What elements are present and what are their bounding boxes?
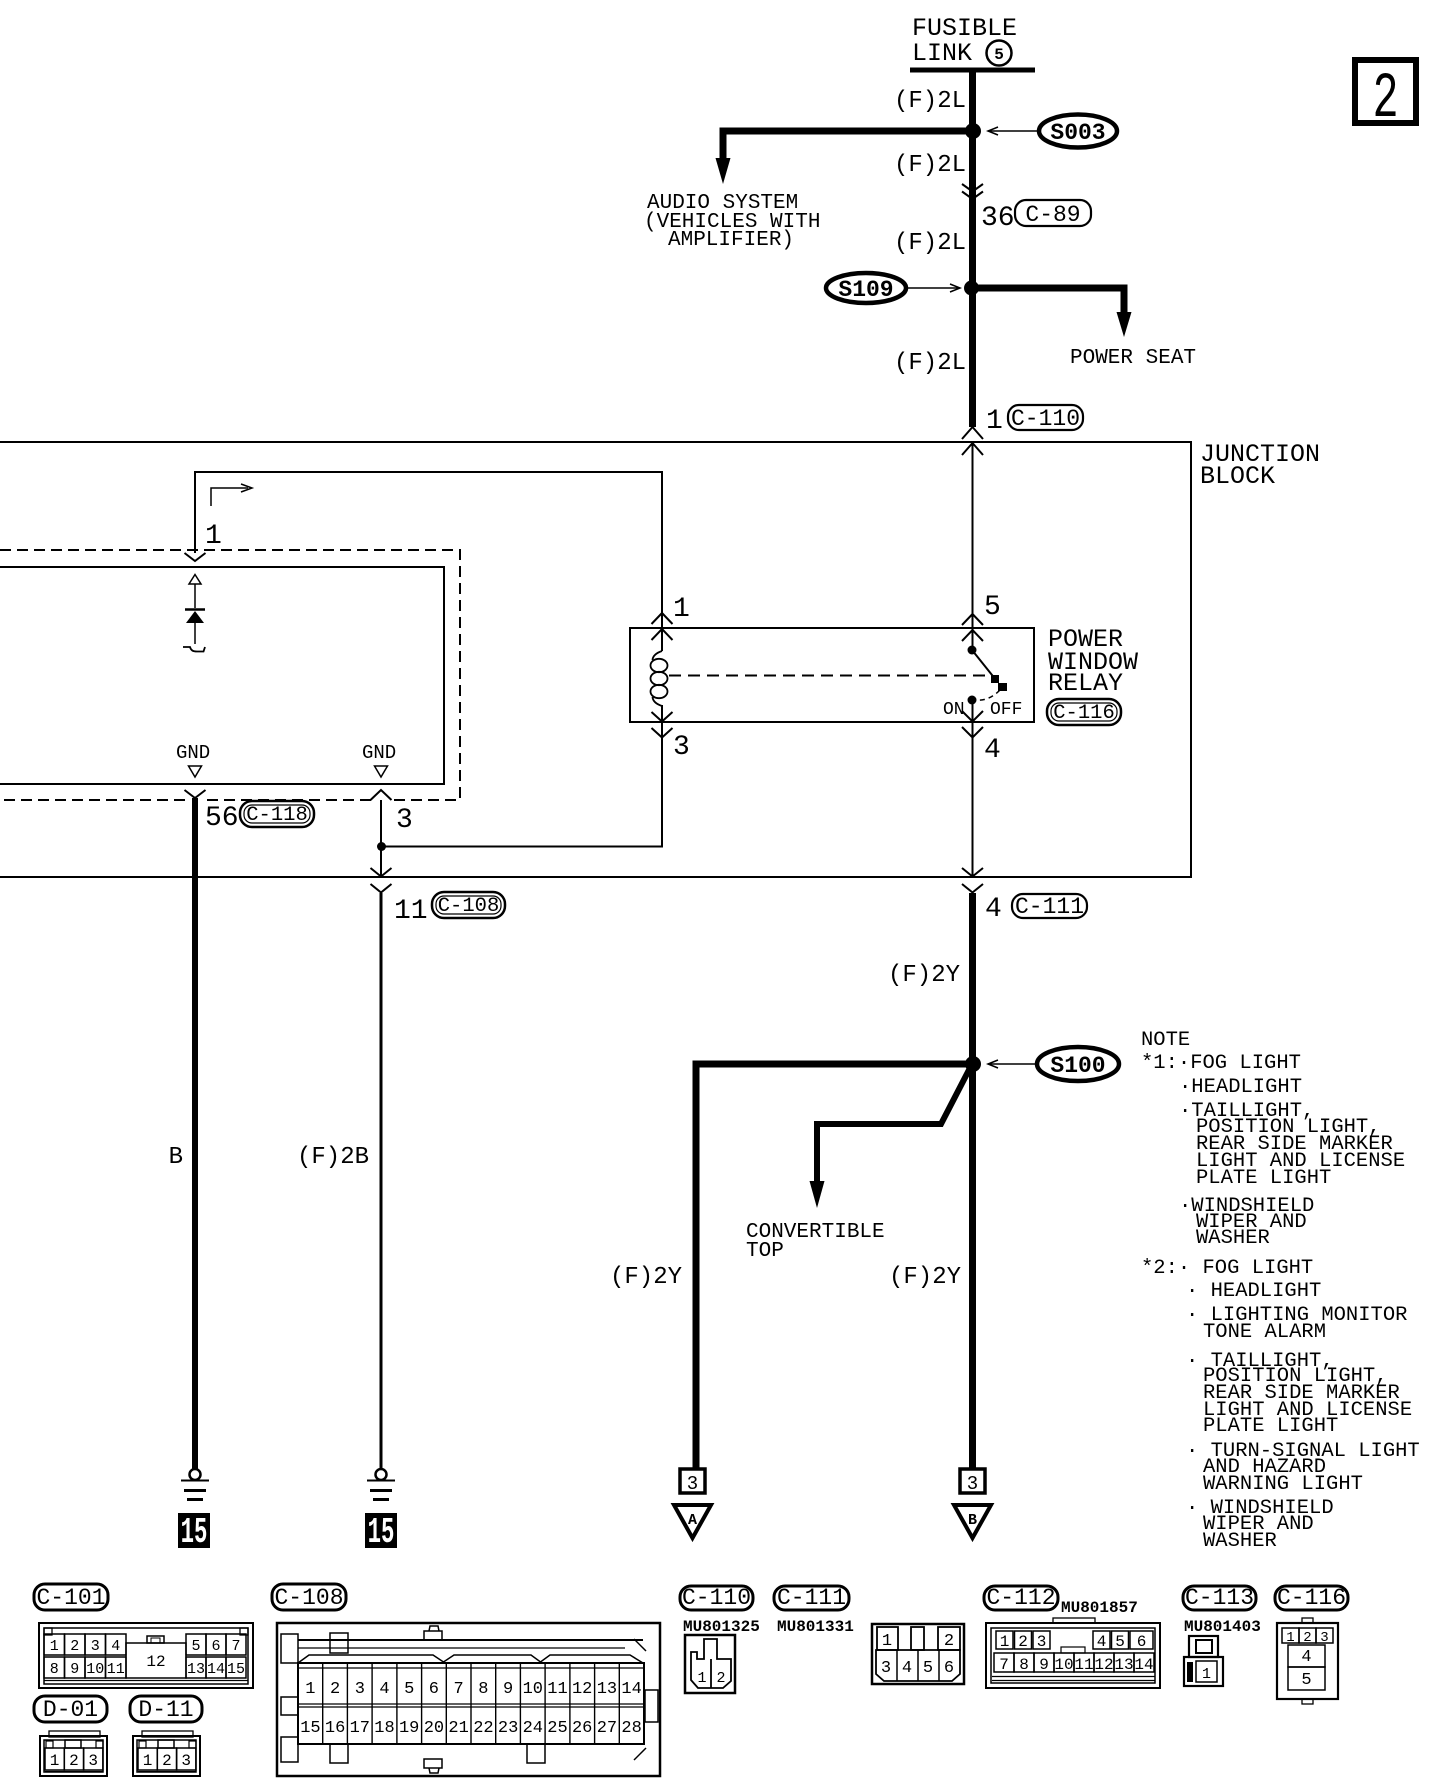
- svg-text:5: 5: [1115, 1633, 1125, 1651]
- svg-text:12: 12: [146, 1653, 165, 1671]
- svg-text:1: 1: [50, 1752, 60, 1770]
- connector bubble C-89: [1015, 200, 1091, 228]
- svg-text:15: 15: [181, 1512, 208, 1553]
- svg-text:AMPLIFIER): AMPLIFIER): [668, 229, 794, 252]
- svg-text:12: 12: [572, 1680, 592, 1699]
- svg-text:11: 11: [394, 896, 428, 927]
- svg-text:PLATE LIGHT: PLATE LIGHT: [1196, 1167, 1331, 1190]
- svg-text:C-110: C-110: [682, 1585, 751, 1611]
- connector C-113 bubble: [1183, 1585, 1256, 1611]
- connector C-108 bubble: [272, 1584, 346, 1611]
- svg-text:14: 14: [207, 1661, 225, 1678]
- connector C-110 bubble bottom: [680, 1585, 753, 1611]
- svg-text:4: 4: [1301, 1648, 1311, 1667]
- svg-text:11: 11: [1074, 1656, 1093, 1674]
- svg-text:9: 9: [1039, 1656, 1049, 1674]
- svg-text:WASHER: WASHER: [1196, 1227, 1270, 1250]
- svg-text:*2:· FOG LIGHT: *2:· FOG LIGHT: [1141, 1257, 1313, 1280]
- svg-text:3: 3: [1037, 1633, 1047, 1651]
- svg-text:27: 27: [597, 1719, 617, 1738]
- connector bubble C-116 relay: [1047, 699, 1121, 725]
- svg-text:19: 19: [399, 1719, 419, 1738]
- svg-text:12: 12: [1094, 1656, 1113, 1674]
- svg-text:BLOCK: BLOCK: [1200, 462, 1275, 491]
- connector D-11 body: [133, 1731, 200, 1776]
- relay switch OFF contact square: [998, 683, 1007, 691]
- connector C-108 body: [277, 1623, 660, 1776]
- label junction block: [1200, 440, 1320, 491]
- svg-text:36: 36: [981, 203, 1015, 234]
- terminator B pin 3 box: [960, 1469, 985, 1495]
- svg-text:9: 9: [503, 1680, 513, 1699]
- ground id box 15 left: [178, 1512, 210, 1553]
- wire (F)2Y main down: [969, 893, 976, 1468]
- connector C-110 body: [685, 1635, 735, 1693]
- svg-text:WASHER: WASHER: [1203, 1530, 1277, 1553]
- chevrons relay pin 1: [652, 613, 673, 640]
- svg-text:A: A: [688, 1512, 697, 1529]
- label convertible top: [746, 1221, 885, 1263]
- terminator B triangle: [954, 1505, 991, 1538]
- terminator A triangle: [674, 1505, 711, 1538]
- svg-text:10: 10: [1054, 1656, 1073, 1674]
- svg-text:23: 23: [498, 1719, 518, 1738]
- relay switch contact top: [968, 646, 977, 655]
- connector C-116 bubble bottom: [1275, 1585, 1348, 1611]
- svg-text:14: 14: [621, 1680, 641, 1699]
- relay switch arm tip square: [991, 675, 999, 683]
- svg-text:C-101: C-101: [36, 1585, 105, 1611]
- svg-text:4: 4: [984, 735, 1001, 766]
- dashed actuation link: [669, 675, 992, 677]
- ground id box 15 right: [365, 1512, 397, 1553]
- svg-text:(F)2L: (F)2L: [894, 230, 966, 257]
- connector crossing chevrons 36 C-89: [962, 184, 983, 199]
- svg-text:1: 1: [882, 1632, 892, 1651]
- connector D-01 bubble: [34, 1696, 107, 1723]
- svg-text:1: 1: [143, 1752, 153, 1770]
- connector C-101 body: [39, 1623, 253, 1688]
- svg-text:6: 6: [944, 1659, 954, 1678]
- connector C-112 body: [986, 1618, 1160, 1688]
- svg-text:22: 22: [473, 1719, 493, 1738]
- svg-text:18: 18: [374, 1719, 394, 1738]
- svg-text:3: 3: [88, 1752, 98, 1770]
- node S100 junction dot: [965, 1056, 981, 1072]
- svg-text:OFF: OFF: [990, 700, 1022, 720]
- svg-text:4: 4: [985, 894, 1002, 925]
- note text block: [1141, 1029, 1420, 1553]
- svg-text:8: 8: [50, 1661, 59, 1678]
- label power window relay: [1048, 625, 1138, 698]
- svg-text:13: 13: [187, 1661, 205, 1678]
- wire ON contact to pin 4: [972, 700, 974, 877]
- power window relay box: [630, 628, 1034, 722]
- svg-text:3: 3: [1320, 1630, 1328, 1646]
- svg-text:2: 2: [716, 1670, 725, 1687]
- svg-text:5: 5: [994, 46, 1004, 64]
- svg-text:6: 6: [429, 1680, 439, 1699]
- svg-text:TOP: TOP: [746, 1240, 784, 1263]
- terminator A pin 3 box: [680, 1469, 705, 1495]
- svg-text:6: 6: [211, 1638, 220, 1655]
- connector C-111 bubble bottom: [774, 1585, 849, 1611]
- svg-text:3: 3: [881, 1659, 891, 1678]
- chevrons crossing junction block bottom at 4: [962, 868, 983, 893]
- svg-text:25: 25: [547, 1719, 567, 1738]
- chevron entering box pin 3: [371, 790, 392, 800]
- arrowhead to convertible top: [810, 1181, 825, 1208]
- svg-text:S109: S109: [838, 277, 893, 303]
- svg-text:13: 13: [597, 1680, 617, 1699]
- connector bubble C-118: [240, 801, 314, 827]
- svg-text:3: 3: [355, 1680, 365, 1699]
- svg-text:9: 9: [70, 1661, 79, 1678]
- arrowhead to power seat: [1117, 312, 1132, 337]
- svg-text:3: 3: [396, 805, 413, 836]
- svg-text:14: 14: [1134, 1656, 1153, 1674]
- GND terminal triangle left: [189, 766, 202, 777]
- connector C-111 body: [872, 1624, 964, 1684]
- svg-text:POWER SEAT: POWER SEAT: [1070, 347, 1196, 370]
- svg-text:2: 2: [70, 1638, 79, 1655]
- svg-text:PLATE LIGHT: PLATE LIGHT: [1203, 1415, 1338, 1438]
- svg-text:1: 1: [697, 1670, 706, 1687]
- svg-text:15: 15: [300, 1719, 320, 1738]
- svg-text:ON: ON: [943, 700, 965, 720]
- svg-text:3: 3: [181, 1752, 191, 1770]
- svg-text:56: 56: [205, 803, 239, 834]
- connector D-01 body: [40, 1731, 107, 1776]
- leader arrow from S109 to dot: [907, 284, 960, 292]
- svg-text:28: 28: [621, 1719, 641, 1738]
- connector bubble C-111: [1012, 894, 1087, 920]
- svg-text:5: 5: [191, 1638, 200, 1655]
- wire (F)2B ground run: [380, 893, 383, 1469]
- connector D-11 bubble: [130, 1696, 202, 1723]
- splice symbol S100: [1037, 1047, 1119, 1081]
- svg-text:10: 10: [523, 1680, 543, 1699]
- node S109 junction dot: [964, 281, 979, 296]
- svg-text:26: 26: [572, 1719, 592, 1738]
- relay switch arm: [972, 650, 996, 680]
- ground symbol right: [367, 1469, 395, 1500]
- svg-text:5: 5: [1301, 1671, 1311, 1690]
- svg-text:B: B: [968, 1512, 977, 1529]
- svg-text:16: 16: [325, 1719, 345, 1738]
- svg-text:2: 2: [1018, 1633, 1028, 1651]
- svg-text:4: 4: [902, 1659, 912, 1678]
- svg-text:GND: GND: [362, 742, 396, 764]
- svg-text:(F)2B: (F)2B: [297, 1144, 369, 1171]
- svg-text:D-11: D-11: [138, 1697, 193, 1723]
- svg-text:15: 15: [368, 1512, 395, 1553]
- svg-text:1: 1: [673, 594, 690, 625]
- svg-text:3: 3: [967, 1473, 978, 1495]
- splice symbol S109: [826, 273, 906, 303]
- svg-text:20: 20: [424, 1719, 444, 1738]
- connector C-116 body: [1277, 1618, 1338, 1704]
- chevrons crossing junction block bottom at 11: [371, 868, 392, 893]
- svg-text:MU801331: MU801331: [777, 1618, 854, 1636]
- svg-text:5: 5: [984, 592, 1001, 623]
- chevron leaving box pin 56: [185, 790, 206, 798]
- svg-text:C-118: C-118: [246, 804, 308, 827]
- svg-text:1: 1: [50, 1638, 59, 1655]
- svg-text:MU801325: MU801325: [683, 1618, 760, 1636]
- label audio system: [644, 192, 820, 252]
- svg-text:C-112: C-112: [986, 1585, 1055, 1611]
- ground symbol left: [181, 1469, 209, 1500]
- connector bubble C-108 wire: [432, 892, 505, 918]
- svg-text:24: 24: [523, 1719, 543, 1738]
- svg-text:(F)2L: (F)2L: [894, 88, 966, 115]
- svg-text:21: 21: [448, 1719, 468, 1738]
- svg-text:10: 10: [86, 1661, 104, 1678]
- svg-text:3: 3: [673, 732, 690, 763]
- svg-text:MU801403: MU801403: [1184, 1618, 1261, 1636]
- svg-text:(F)2L: (F)2L: [894, 152, 966, 179]
- svg-text:C-111: C-111: [1015, 894, 1084, 920]
- wire splice to relay pin 3: [381, 705, 662, 847]
- svg-text:B: B: [169, 1144, 183, 1171]
- svg-text:(F)2L: (F)2L: [894, 350, 966, 377]
- arrowhead to audio system: [716, 158, 731, 184]
- relay switch contact bottom ON: [968, 696, 977, 705]
- svg-text:5: 5: [923, 1659, 933, 1678]
- wire B ground run: [192, 798, 198, 1469]
- svg-text:2: 2: [944, 1632, 954, 1651]
- relay switch dashed travel arc: [977, 690, 1000, 700]
- svg-text:5: 5: [404, 1680, 414, 1699]
- solid component box: [0, 567, 444, 784]
- svg-text:4: 4: [379, 1680, 389, 1699]
- connector crossing chevrons at junction block entry: [962, 427, 983, 455]
- wire (F)2L main vertical feed: [969, 70, 976, 427]
- svg-text:1: 1: [986, 406, 1003, 437]
- svg-text:(F)2Y: (F)2Y: [888, 962, 960, 989]
- svg-text:3: 3: [687, 1473, 698, 1495]
- leader arrow from S100 to dot: [988, 1060, 1036, 1068]
- svg-text:7: 7: [999, 1656, 1009, 1674]
- svg-text:C-111: C-111: [777, 1585, 846, 1611]
- wire from C-110 pin to relay pin 5: [972, 443, 974, 650]
- connector C-101 bubble: [34, 1584, 108, 1611]
- GND terminal triangle right: [375, 766, 388, 777]
- svg-text:C-108: C-108: [274, 1585, 343, 1611]
- svg-text:NOTE: NOTE: [1141, 1029, 1190, 1052]
- svg-text:4: 4: [111, 1638, 120, 1655]
- dashed boundary box: [0, 550, 460, 800]
- splice symbol S003: [1039, 115, 1117, 148]
- svg-text:2: 2: [1372, 63, 1398, 136]
- svg-text:11: 11: [547, 1680, 567, 1699]
- svg-text:· HEADLIGHT: · HEADLIGHT: [1186, 1280, 1321, 1303]
- svg-text:1: 1: [1202, 1666, 1211, 1683]
- svg-text:C-116: C-116: [1277, 1585, 1346, 1611]
- svg-text:15: 15: [227, 1661, 245, 1678]
- wire pin3 to splice dot: [380, 800, 382, 877]
- relay coil: [651, 651, 668, 706]
- svg-text:C-113: C-113: [1185, 1585, 1254, 1611]
- svg-text:8: 8: [478, 1680, 488, 1699]
- svg-text:*1:·FOG LIGHT: *1:·FOG LIGHT: [1141, 1052, 1301, 1075]
- node S003 junction dot: [965, 123, 981, 139]
- svg-text:3: 3: [91, 1638, 100, 1655]
- svg-text:2: 2: [162, 1752, 172, 1770]
- leader arrow from S003 to dot: [988, 127, 1038, 135]
- svg-text:S100: S100: [1050, 1053, 1105, 1079]
- flow arrow mark: [211, 484, 252, 506]
- wire branch A horizontal: [696, 1064, 973, 1468]
- connector C-113 body: [1184, 1636, 1223, 1686]
- fusible link 5 label: [912, 14, 1017, 68]
- svg-text:7: 7: [231, 1638, 240, 1655]
- page number box 2: [1355, 60, 1416, 136]
- svg-text:C-110: C-110: [1011, 406, 1080, 432]
- svg-text:2: 2: [1303, 1630, 1311, 1646]
- svg-text:13: 13: [1114, 1656, 1133, 1674]
- svg-text:TONE ALARM: TONE ALARM: [1203, 1321, 1326, 1344]
- chevrons relay pin 4: [962, 711, 983, 738]
- svg-text:C-108: C-108: [438, 895, 500, 918]
- wire branch to power seat: [972, 288, 1124, 314]
- junction block outline: [0, 442, 1191, 877]
- svg-text:WARNING LIGHT: WARNING LIGHT: [1203, 1473, 1363, 1496]
- svg-text:MU801857: MU801857: [1061, 1599, 1138, 1617]
- svg-text:1: 1: [1286, 1630, 1294, 1646]
- svg-text:(F)2Y: (F)2Y: [889, 1264, 961, 1291]
- svg-text:S003: S003: [1050, 120, 1105, 146]
- svg-text:2: 2: [69, 1752, 79, 1770]
- svg-text:1: 1: [205, 521, 222, 552]
- wire branch to convertible top: [817, 1066, 971, 1183]
- svg-text:·HEADLIGHT: ·HEADLIGHT: [1179, 1076, 1302, 1099]
- svg-text:17: 17: [350, 1719, 370, 1738]
- svg-text:1: 1: [305, 1680, 315, 1699]
- svg-text:C-116: C-116: [1053, 702, 1115, 725]
- svg-text:(F)2Y: (F)2Y: [610, 1264, 682, 1291]
- diode symbol: [183, 575, 205, 652]
- chevrons relay pin 3: [652, 712, 673, 738]
- dashed boundary box bottom left: [205, 799, 371, 801]
- svg-text:RELAY: RELAY: [1048, 669, 1123, 698]
- wire node 1 horizontal run: [195, 472, 662, 651]
- svg-text:8: 8: [1019, 1656, 1029, 1674]
- node junction dot pin3: [377, 842, 386, 851]
- chevron entering dashed box: [185, 553, 206, 561]
- svg-text:D-01: D-01: [43, 1697, 98, 1723]
- svg-text:GND: GND: [176, 742, 210, 764]
- svg-text:4: 4: [1097, 1633, 1107, 1651]
- svg-text:2: 2: [330, 1680, 340, 1699]
- svg-text:7: 7: [453, 1680, 463, 1699]
- wire branch to audio system: [723, 131, 973, 160]
- svg-text:C-89: C-89: [1025, 202, 1080, 228]
- svg-text:LINK: LINK: [912, 39, 972, 68]
- svg-text:11: 11: [107, 1661, 125, 1678]
- connector C-112 bubble: [984, 1585, 1058, 1611]
- connector bubble C-110: [1008, 405, 1083, 432]
- fusible link bar: [910, 68, 1035, 73]
- svg-text:1: 1: [1000, 1633, 1010, 1651]
- chevrons relay pin 5: [962, 614, 983, 641]
- svg-text:6: 6: [1137, 1633, 1147, 1651]
